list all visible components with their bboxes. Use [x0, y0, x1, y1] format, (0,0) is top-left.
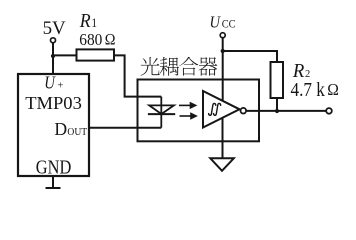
wire schmitt to ground — [222, 118, 224, 159]
pin label DOUT — [54, 119, 67, 139]
wire UCC to schmitt power — [222, 38, 224, 101]
value 680 ohm — [79, 29, 102, 49]
ground TMP03 — [46, 176, 61, 188]
terminal UCC — [220, 33, 225, 38]
pin label U+ — [44, 72, 56, 93]
svg-text:5V: 5V — [43, 18, 66, 39]
svg-text:CC: CC — [222, 18, 236, 31]
LED D1 — [148, 97, 175, 128]
svg-text:Ω: Ω — [105, 31, 116, 49]
label UCC — [210, 13, 222, 31]
hysteresis symbol — [209, 103, 221, 115]
wire R2 bottom to output — [276, 98, 278, 111]
wire junction to R2 top — [223, 51, 277, 62]
wire output — [246, 110, 326, 112]
pin label GND — [36, 156, 71, 178]
wire junction to R1 left — [53, 54, 77, 56]
svg-text:OUT: OUT — [67, 127, 87, 138]
svg-text:680: 680 — [79, 29, 102, 49]
svg-text:1: 1 — [92, 16, 98, 30]
IC U1 TMP03 box — [18, 74, 89, 176]
svg-text:GND: GND — [36, 156, 71, 178]
terminal 5V — [51, 38, 56, 43]
label R2 — [292, 61, 305, 83]
svg-text:+: + — [57, 80, 63, 91]
label R1 — [79, 10, 91, 32]
svg-text:U: U — [210, 13, 222, 31]
wire 5V terminal to TMP03 U+ pin — [52, 43, 54, 74]
inverter bubble — [241, 108, 247, 114]
light arrows — [179, 102, 198, 120]
wire R1 right to LED anode — [114, 55, 161, 96]
svg-text:Ω: Ω — [327, 79, 339, 99]
optocoupler box — [138, 80, 260, 142]
resistor R1 — [77, 49, 115, 60]
svg-text:U: U — [44, 72, 56, 93]
svg-text:D: D — [54, 119, 67, 139]
svg-text:4.7 k: 4.7 k — [291, 79, 326, 102]
label 5V — [43, 18, 66, 39]
resistor R2 — [271, 62, 284, 98]
label optocoupler (Chinese) — [141, 57, 218, 76]
label TMP03 — [25, 93, 82, 113]
junction 5V/R1 — [51, 54, 55, 58]
junction R2/output — [275, 109, 279, 113]
wire DOUT to LED cathode — [89, 127, 161, 129]
junction UCC/R2 — [221, 49, 225, 53]
schmitt trigger buffer — [203, 91, 240, 128]
svg-text:TMP03: TMP03 — [25, 93, 82, 113]
terminal output — [326, 108, 332, 114]
value 4.7 kohm — [291, 79, 326, 102]
ground (signal) — [210, 158, 234, 171]
